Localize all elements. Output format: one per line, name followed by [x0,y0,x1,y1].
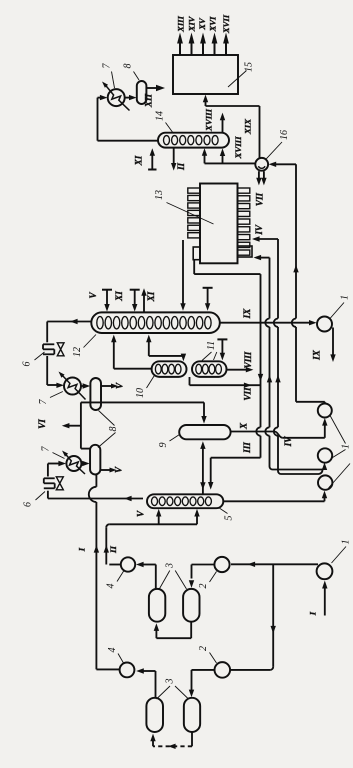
column 5 packing [152,497,158,506]
pump circle C [318,475,332,489]
svg-text:13: 13 [154,190,165,200]
bus line A (stream III) [260,274,262,427]
compressor 16 outlet arrows [258,171,260,180]
svg-text:II: II [108,546,118,554]
bus line C merge [281,473,319,475]
label 6b leader [36,492,46,501]
stream VII line [189,377,191,385]
svg-text:XVII: XVII [221,14,231,34]
wire column 14 overhead [97,98,99,141]
svg-text:II: II [176,163,186,172]
pump 2a outlet wire [192,564,215,566]
stream XI arrow into column 14 [148,169,156,171]
arrow into pump 4b [141,670,156,672]
stream from block 13 T-arrow [203,287,213,289]
svg-text:6: 6 [23,502,34,507]
block 13 left lower box [193,247,200,260]
adsorber pair 2 connector dashed [191,732,193,746]
arrow into vessel 9 [203,402,205,417]
compressor 16 circle [255,158,268,171]
wire into compressor 16 [272,163,297,165]
wire compressor 16 to column 14 bottom [205,162,256,164]
svg-text:3: 3 [165,679,176,685]
stream XVII arrow [225,43,227,55]
adsorber 3c [146,698,163,732]
svg-text:15: 15 [244,62,255,72]
arrow into column 14 bottom left [204,154,206,164]
svg-text:VII: VII [243,387,253,401]
stream X line [231,431,275,433]
svg-text:I: I [77,547,87,552]
svg-text:V: V [114,466,124,473]
stream XIII arrow [179,43,181,55]
wire bus C to block 13 tubes [255,238,279,240]
svg-text:I: I [308,611,318,616]
column 5 overhead to pump C [223,500,324,502]
stream V arrow into column 5 [158,514,160,525]
bus line B [269,258,271,319]
stream I line corner to pump 4b [96,668,119,670]
pump 1a circle [317,317,332,332]
svg-text:XIII: XIII [176,15,186,32]
stream IX arrow [332,328,334,356]
svg-text:6: 6 [22,362,33,367]
svg-text:X: X [238,422,248,430]
stream I line [95,475,97,487]
svg-text:14: 14 [155,111,166,121]
label 8 leaders [99,411,115,426]
stream VIII arrow [227,369,249,371]
wire condenser to drum 8b [81,463,84,465]
stream XI arrow into column 12 [130,289,140,291]
label 11 leaders [202,352,212,361]
svg-text:10: 10 [135,388,146,398]
label 13 leader [167,203,214,225]
condenser 7 zigzag arrow [104,84,129,111]
adsorber 3d [184,698,200,732]
svg-text:5: 5 [224,516,235,521]
reflux drum 8a [90,378,101,410]
block 13 body [200,184,238,264]
svg-text:XVIII: XVIII [233,136,243,160]
svg-text:VIII: VIII [243,351,253,368]
label 12 leader [84,335,97,348]
bus line B to pump [273,469,322,471]
bus line A to column 5 [211,457,261,459]
svg-text:XV: XV [197,17,207,31]
stream XVI arrow [214,43,216,55]
block 13 right lower box [238,246,253,257]
label 1 group leaders [330,415,346,444]
label 7 second leader [50,392,63,398]
column 10 [152,361,187,377]
wire bus B to block 13 lower box [256,257,270,259]
condenser 7 third zigzag [64,453,85,474]
column 14 packing [164,136,170,145]
svg-text:1: 1 [340,295,351,300]
label 3 pair2 leaders [157,686,171,699]
apparatus 15 (gas fractionation unit) box [173,55,238,94]
pump 4a circle [121,557,135,571]
svg-text:V: V [136,510,146,517]
stream XV arrow [202,43,204,55]
stream I feed arrow [324,589,326,616]
bus branch to pump 2b [272,564,274,667]
label 1b leader [332,547,347,564]
arrow into box 15 [205,100,207,107]
bus line D to pump 1 suction [296,401,325,403]
bus branch corner [230,669,270,671]
svg-text:12: 12 [72,347,83,357]
label 6a leader [35,352,45,360]
label 3 leaders [159,571,170,590]
svg-text:XVIII: XVIII [204,108,214,132]
wire column 12 to column 10 left [113,341,115,369]
svg-text:IV: IV [254,224,264,236]
label 8 leader [134,72,140,81]
block 13 right tube row [238,188,250,193]
stream II riser [109,564,121,566]
wire drum 8a bottom loop [81,401,204,403]
wire compressor-16 to box-15 [206,105,260,107]
svg-text:1: 1 [341,540,352,545]
label 4a leader [117,571,124,582]
condenser 7 third circle [66,456,81,471]
throttle valve 6a [43,343,54,345]
stream XIV arrow [191,43,193,55]
vessel 9 [179,425,230,439]
adsorber C outlet wire [155,671,157,698]
label 10 leader [147,375,156,389]
stream arrow into column 11 T [217,338,227,340]
svg-text:V: V [115,382,125,389]
throttle valve 6b [44,477,55,479]
svg-text:4: 4 [106,584,117,589]
label 1a leader [330,303,344,319]
bus line D (to compressor) [295,164,297,318]
wire valve 6b to column 5 [47,491,49,499]
label 9 leader [170,435,180,442]
arrow into vessel 9 bottom / column 5 line [202,448,204,495]
condenser 7 circle [108,89,125,106]
label 14 leader [166,123,174,134]
label 4b leader [118,654,124,664]
column 14 [158,133,229,148]
pump 4b circle [120,663,135,678]
svg-text:11: 11 [206,341,217,350]
wire block 13 to column 12 [182,240,184,305]
stream V arrow from drum 8a [101,385,112,387]
label 2b leader [210,653,217,664]
wire into condenser 7 third [48,463,60,465]
stream XVIII arrow from column 14 top [222,119,224,133]
stream VI arrow [67,425,81,427]
svg-text:8: 8 [123,64,134,69]
svg-text:XI: XI [114,291,124,302]
svg-text:VI: VI [37,419,47,429]
column 12 [91,312,220,333]
svg-text:XI: XI [146,291,156,302]
column 10 packing [155,364,161,374]
adsorber 3a [149,589,165,622]
drum 8 cylinder [137,81,147,104]
svg-text:2: 2 [198,584,209,589]
svg-text:XII: XII [144,93,154,108]
adsorber pair 1 connector [190,622,192,639]
stream V arrow from drum 8b [100,469,110,471]
label 2a leader [210,572,217,583]
svg-text:IX: IX [312,349,322,361]
stream XI arrow out of column 12 [143,295,145,312]
column 12 packing [97,317,103,329]
wire condenser 7 to drum 8 [125,97,131,99]
wire column 12 to columns 10-11 joint [148,341,150,356]
condenser 7 second zigzag [61,374,86,400]
pump 2a circle [214,557,229,572]
svg-text:2: 2 [198,646,209,651]
column 5 bottoms wire [109,523,197,525]
bus line C [277,239,279,319]
label 16 leader [266,142,282,159]
adsorber 3b [183,589,199,622]
svg-text:IX: IX [242,308,252,320]
svg-text:XIX: XIX [243,118,253,135]
svg-text:III: III [242,442,252,454]
wire valve 6a to condenser [46,356,48,385]
svg-text:V: V [88,292,98,299]
column 5 [147,494,223,508]
svg-text:1: 1 [341,444,352,449]
svg-text:16: 16 [279,130,290,140]
svg-text:4: 4 [107,648,118,653]
label 7 third leader [53,453,65,459]
pump 1b circle [317,563,333,579]
svg-text:8: 8 [108,427,119,432]
column 11 [192,361,227,377]
svg-text:XVI: XVI [208,16,218,32]
column 11 packing [196,364,202,374]
svg-text:VII: VII [254,192,264,206]
column 12 overhead wire [47,321,91,323]
label 5 leader [219,508,228,514]
svg-text:XI: XI [134,155,144,166]
svg-text:3: 3 [165,563,176,569]
arrow into column 14 bottom right [222,154,224,164]
wire block 13 lower box down [193,260,195,274]
pump circle A [318,404,332,418]
pump 2b outlet wire [192,669,215,671]
condenser 7 second circle [64,378,81,395]
reflux drum 8b [90,445,100,475]
stream II arrow from column 14 [173,148,175,165]
label 7 leader [112,72,115,89]
block 13 left tube row [188,188,200,193]
wire into condenser 7 [98,97,103,99]
svg-text:IV: IV [283,436,293,448]
stream XII arrow [146,87,156,89]
pump circle B [318,448,332,462]
label 15 leader [228,71,247,88]
arrow into pump 4a [141,564,156,566]
svg-text:9: 9 [158,443,169,448]
svg-text:XIV: XIV [187,15,197,32]
pump 2b circle [215,662,231,678]
adsorber A outlet wire [155,565,157,590]
bottom bus wire [231,563,318,565]
column 12 top line to pump 1a [220,322,311,324]
stream V arrow into column 12 [102,289,112,291]
wire condenser to drum 8a [81,385,85,387]
